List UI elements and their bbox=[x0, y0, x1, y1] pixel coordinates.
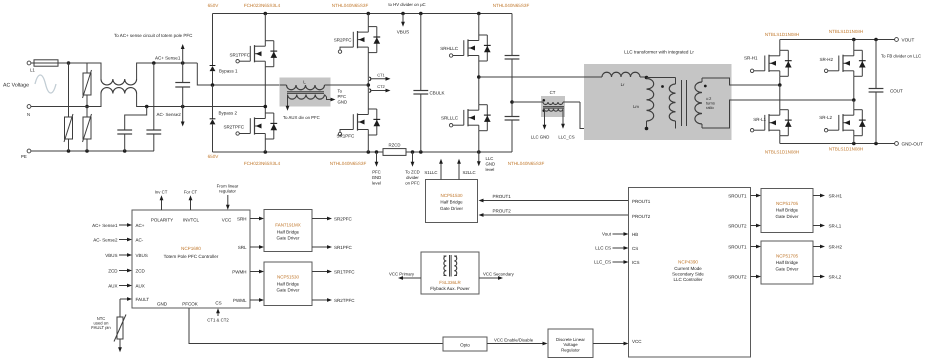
wire opto to regulator bbox=[487, 343, 545, 345]
svg-text:ratio: ratio bbox=[706, 105, 715, 110]
svg-text:VBUS: VBUS bbox=[397, 30, 410, 35]
U2 FAN7191MX Half Bridge Gate Driver bbox=[264, 210, 312, 252]
svg-text:PFC: PFC bbox=[338, 94, 347, 99]
svg-text:Gate Driver: Gate Driver bbox=[775, 214, 799, 219]
svg-text:S1LLC: S1LLC bbox=[424, 170, 437, 175]
wire regulator to LLC VCC bbox=[593, 343, 626, 345]
svg-text:Half Bridge: Half Bridge bbox=[776, 260, 799, 265]
svg-text:Flyback Aux. Power: Flyback Aux. Power bbox=[430, 286, 470, 291]
svg-text:650V: 650V bbox=[208, 154, 220, 159]
svg-text:VBUS: VBUS bbox=[136, 253, 148, 258]
svg-text:CT: CT bbox=[550, 90, 556, 95]
svg-text:FAN7191MX: FAN7191MX bbox=[275, 223, 301, 228]
wire N rail bbox=[31, 106, 100, 108]
svg-text:ICS: ICS bbox=[632, 260, 640, 265]
transistor SRLLLC bbox=[467, 109, 469, 126]
svg-text:VCC Primary: VCC Primary bbox=[389, 272, 415, 277]
terminal L1 bbox=[27, 61, 31, 65]
svg-text:PE: PE bbox=[21, 154, 27, 159]
svg-text:Gate Driver: Gate Driver bbox=[276, 288, 300, 293]
svg-text:Inv CT: Inv CT bbox=[155, 189, 168, 194]
svg-text:LLC transformer with integrate: LLC transformer with integrated Lr bbox=[624, 50, 694, 55]
svg-text:Gate Driver: Gate Driver bbox=[440, 206, 464, 211]
svg-text:GND: GND bbox=[372, 175, 382, 180]
svg-text:Gate Driver: Gate Driver bbox=[276, 236, 300, 241]
wires NCP4390 to SR drivers bbox=[751, 195, 759, 197]
svg-text:For CT: For CT bbox=[184, 189, 198, 194]
VCC from linear regulator bbox=[227, 195, 229, 208]
node AC-L at diode leg bbox=[211, 83, 215, 87]
capacitor CX1 (L-N) bbox=[182, 63, 184, 83]
svg-text:To ZCD: To ZCD bbox=[405, 170, 420, 175]
capacitor CBULK bbox=[420, 14, 422, 91]
svg-text:NTBLS1D1N08H: NTBLS1D1N08H bbox=[765, 32, 799, 37]
svg-text:Secondary Side: Secondary Side bbox=[672, 271, 704, 276]
node VBUS bbox=[402, 14, 404, 25]
wire secondary top to SR leg1 bbox=[702, 78, 780, 85]
svg-text:LLC_CS: LLC_CS bbox=[594, 260, 611, 265]
svg-text:SR2TPFC: SR2TPFC bbox=[334, 298, 355, 303]
diode Bypass 1 bbox=[212, 14, 214, 66]
svg-text:PFCOK: PFCOK bbox=[182, 301, 198, 306]
svg-text:Totem Pole PFC Controller: Totem Pole PFC Controller bbox=[164, 254, 219, 259]
svg-text:FCH023N65S3L4: FCH023N65S3L4 bbox=[244, 3, 281, 8]
svg-text:CS: CS bbox=[215, 300, 221, 305]
svg-text:NTBLS1D1N08H: NTBLS1D1N08H bbox=[829, 29, 863, 34]
svg-text:SR-L1: SR-L1 bbox=[829, 223, 842, 228]
wire GND-OUT rail bbox=[780, 143, 895, 145]
svg-text:Current Mode: Current Mode bbox=[674, 266, 702, 271]
svg-text:PFC: PFC bbox=[372, 170, 381, 175]
node Cr midpoint bbox=[510, 100, 514, 104]
svg-text:Gate Driver: Gate Driver bbox=[775, 266, 799, 271]
svg-text:NTHL040N65S3F: NTHL040N65S3F bbox=[332, 3, 369, 8]
svg-text:VCC: VCC bbox=[632, 339, 642, 344]
U6 NCP4390 Current Mode Secondary Side LLC Controller bbox=[629, 188, 751, 358]
U7 NCP51705 Half Bridge Gate Driver bbox=[761, 189, 813, 233]
svg-text:AC Voltage: AC Voltage bbox=[3, 83, 29, 89]
transistor SR-H1 bbox=[768, 55, 770, 72]
svg-text:on PFC: on PFC bbox=[405, 181, 420, 186]
svg-text:SR-L2: SR-L2 bbox=[829, 274, 842, 279]
svg-text:SR-H2: SR-H2 bbox=[829, 244, 843, 249]
transistor SR2TPFC bbox=[254, 117, 256, 134]
CT secondary leads LLC GND / LLC_CS bbox=[544, 110, 546, 128]
wire PFC bus- rail bbox=[213, 151, 384, 153]
wires PROUT1 PROUT2 bbox=[481, 200, 629, 202]
node LLC GND level bbox=[478, 152, 480, 164]
Opto block bbox=[443, 337, 487, 351]
svg-text:AC+ Sense1: AC+ Sense1 bbox=[155, 56, 181, 61]
svg-text:Lm: Lm bbox=[633, 104, 639, 109]
wire VOUT rail bbox=[780, 39, 895, 41]
svg-text:NTBLS1D1N08H: NTBLS1D1N08H bbox=[765, 150, 799, 155]
svg-text:Bypass 2: Bypass 2 bbox=[219, 111, 238, 116]
svg-text:regulator: regulator bbox=[219, 189, 237, 194]
node AC- Sense2 bbox=[182, 107, 184, 125]
U5 FSL336LR Flyback Aux Power bbox=[421, 252, 479, 294]
svg-text:Voltage: Voltage bbox=[563, 342, 578, 347]
svg-text:SRHLLC: SRHLLC bbox=[440, 46, 459, 51]
svg-text:AC-: AC- bbox=[136, 237, 144, 242]
U4 NCP51530 Half Bridge Gate Driver LLC bbox=[426, 180, 478, 223]
node LLC SW bbox=[477, 75, 481, 79]
node Lr/Lm junction bbox=[640, 76, 647, 78]
capacitor CY2 (L-PE) bbox=[153, 63, 155, 130]
svg-text:SRH: SRH bbox=[237, 216, 247, 221]
svg-text:CBULK: CBULK bbox=[430, 91, 445, 96]
U8 NCP51705 Half Bridge Gate Driver bbox=[761, 241, 813, 284]
svg-text:SR-L1: SR-L1 bbox=[753, 117, 766, 122]
wire PFC bus+ rail bbox=[213, 13, 513, 15]
svg-text:Lr: Lr bbox=[621, 82, 625, 87]
svg-text:GND: GND bbox=[338, 100, 348, 105]
svg-text:SR-L2: SR-L2 bbox=[819, 115, 832, 120]
varistor RV3 (N-PE) bbox=[86, 107, 88, 118]
svg-text:SRLLLC: SRLLLC bbox=[441, 116, 459, 121]
svg-text:NCP51705: NCP51705 bbox=[776, 253, 799, 258]
svg-text:NCP1680: NCP1680 bbox=[181, 246, 201, 251]
svg-text:FAULT: FAULT bbox=[136, 297, 150, 302]
inductor Lr bbox=[479, 76, 602, 78]
svg-text:SR1TPFC: SR1TPFC bbox=[334, 269, 355, 274]
svg-text:AC+ Sense1: AC+ Sense1 bbox=[92, 223, 118, 228]
driver outputs bbox=[312, 218, 330, 220]
svg-text:Half Bridge: Half Bridge bbox=[277, 282, 300, 287]
VCC Secondary lead bbox=[479, 277, 501, 279]
svg-text:ZCD: ZCD bbox=[108, 268, 118, 273]
svg-text:level: level bbox=[486, 167, 495, 172]
capacitor Cr bottom bbox=[505, 116, 520, 118]
VCC Primary lead bbox=[401, 277, 422, 279]
svg-text:SR-H1: SR-H1 bbox=[829, 193, 843, 198]
svg-text:VCC: VCC bbox=[222, 218, 232, 223]
svg-text:AUX: AUX bbox=[136, 283, 145, 288]
svg-text:To: To bbox=[338, 89, 343, 94]
svg-text:LLC GND: LLC GND bbox=[531, 135, 550, 140]
terminal PE bbox=[27, 149, 31, 153]
svg-text:CT2: CT2 bbox=[377, 84, 385, 89]
node SW fast leg bbox=[367, 83, 371, 87]
svg-text:to HV divider on µC: to HV divider on µC bbox=[388, 2, 425, 7]
terminal N bbox=[27, 105, 31, 109]
CS pin from CT1 CT2 bbox=[217, 310, 219, 316]
svg-text:AC- Sense2: AC- Sense2 bbox=[93, 237, 118, 242]
svg-text:CT1: CT1 bbox=[377, 72, 385, 77]
top pin For CT bbox=[190, 198, 192, 211]
svg-text:NCP4390: NCP4390 bbox=[678, 259, 698, 264]
svg-text:AC+: AC+ bbox=[136, 223, 145, 228]
transformer core bbox=[681, 80, 683, 126]
svg-text:Half Bridge: Half Bridge bbox=[440, 200, 463, 205]
svg-text:SR2TPFC: SR2TPFC bbox=[223, 125, 244, 130]
svg-text:AUX: AUX bbox=[108, 283, 117, 288]
svg-text:Bypass 1: Bypass 1 bbox=[219, 69, 238, 74]
svg-text:NCP51705: NCP51705 bbox=[776, 201, 799, 206]
svg-text:HB: HB bbox=[632, 232, 638, 237]
U3 NCP51530 Half Bridge Gate Driver bbox=[264, 262, 312, 306]
svg-text:SR-H2: SR-H2 bbox=[819, 57, 833, 62]
capacitor CY1 (N-PE) bbox=[125, 107, 147, 131]
aux winding of L bbox=[288, 95, 325, 100]
svg-text:Opto: Opto bbox=[460, 342, 470, 347]
svg-text:NTHL040N65S3F: NTHL040N65S3F bbox=[493, 3, 530, 8]
svg-text:N: N bbox=[27, 112, 30, 117]
CT2 tap bbox=[369, 89, 371, 92]
transformer secondary bbox=[701, 78, 703, 82]
svg-text:PWMH: PWMH bbox=[232, 269, 246, 274]
capacitor Cr top bbox=[511, 14, 513, 56]
svg-text:PROUT2: PROUT2 bbox=[632, 214, 651, 219]
terminal GND-OUT bbox=[895, 142, 899, 146]
svg-text:NCP51530: NCP51530 bbox=[277, 275, 300, 280]
node PFC GND level bbox=[376, 152, 378, 165]
svg-text:S2LLC: S2LLC bbox=[463, 170, 476, 175]
transistor SR2PFC bbox=[357, 31, 359, 48]
svg-text:Vout: Vout bbox=[602, 232, 612, 237]
node AC+ Sense1 bbox=[182, 46, 184, 63]
wire AC-L to bridge bbox=[197, 63, 212, 85]
wire L rail bbox=[58, 62, 101, 64]
LLC transformer block bbox=[584, 64, 732, 140]
transistor SR-H2 bbox=[842, 55, 844, 72]
svg-text:SR1PFC: SR1PFC bbox=[334, 245, 353, 250]
svg-text:RZCD: RZCD bbox=[389, 143, 401, 148]
inductor Lm bbox=[647, 79, 654, 122]
transistor SR1PFC bbox=[357, 113, 359, 130]
svg-text:SR1TPFC: SR1TPFC bbox=[229, 53, 250, 58]
svg-text:divider: divider bbox=[406, 175, 419, 180]
svg-text:SROUT1: SROUT1 bbox=[728, 193, 747, 198]
svg-text:NCP51530: NCP51530 bbox=[440, 193, 463, 198]
node leg2 mid bbox=[852, 98, 856, 102]
svg-text:Half Bridge: Half Bridge bbox=[277, 230, 300, 235]
Discrete Linear Voltage Regulator bbox=[548, 329, 593, 358]
node To ZCD divider on PFC bbox=[412, 152, 414, 165]
svg-text:SR2PFC: SR2PFC bbox=[334, 38, 353, 43]
wire secondary bottom to SR leg2 bbox=[702, 100, 854, 128]
NTC thermistor on FAULT pin bbox=[120, 298, 130, 300]
svg-text:CS: CS bbox=[632, 246, 638, 251]
common-mode choke L1 bbox=[58, 63, 101, 79]
svg-text:COUT: COUT bbox=[890, 89, 903, 94]
CT1 tap bbox=[369, 77, 371, 80]
svg-text:Half Bridge: Half Bridge bbox=[776, 208, 799, 213]
svg-text:VBUS: VBUS bbox=[105, 253, 117, 258]
svg-text:SROUT2: SROUT2 bbox=[728, 223, 747, 228]
svg-text:Regulator: Regulator bbox=[561, 347, 580, 352]
svg-text:LLC_CS: LLC_CS bbox=[558, 135, 574, 140]
svg-text:To AUX div on PFC: To AUX div on PFC bbox=[283, 115, 320, 120]
boost inductor L bbox=[280, 78, 331, 107]
svg-text:SROUT2: SROUT2 bbox=[728, 274, 747, 279]
node leg1 mid bbox=[778, 83, 782, 87]
top pin Inv CT bbox=[161, 198, 163, 211]
wire CT to primary return bbox=[580, 102, 676, 129]
transistor SR-L2 bbox=[842, 114, 844, 131]
svg-text:GND-OUT: GND-OUT bbox=[902, 142, 924, 147]
terminal VOUT bbox=[895, 38, 899, 42]
svg-text:CT1 & CT2: CT1 & CT2 bbox=[207, 317, 229, 322]
diode Bypass 2 bbox=[212, 85, 214, 119]
svg-text:FAULT pin: FAULT pin bbox=[91, 325, 111, 330]
transistor SRHLLC bbox=[467, 39, 469, 56]
svg-text:To FB divider on LLC: To FB divider on LLC bbox=[881, 54, 921, 59]
gate leads S1LLC / S2LLC bbox=[440, 161, 442, 180]
svg-text:NTHL040N65S3F: NTHL040N65S3F bbox=[330, 161, 367, 166]
svg-text:SR1PFC: SR1PFC bbox=[337, 134, 356, 139]
svg-text:PROUT1: PROUT1 bbox=[493, 194, 512, 199]
svg-text:SR2PFC: SR2PFC bbox=[334, 216, 353, 221]
svg-text:VOUT: VOUT bbox=[902, 38, 915, 43]
svg-text:GND: GND bbox=[486, 162, 496, 167]
transformer primary bbox=[675, 78, 677, 85]
svg-text:L1: L1 bbox=[30, 68, 35, 73]
svg-text:650V: 650V bbox=[208, 3, 220, 8]
svg-text:PROUT1: PROUT1 bbox=[632, 199, 651, 204]
transistor SR1TPFC bbox=[254, 45, 256, 62]
svg-text:NTBLS1D1N08H: NTBLS1D1N08H bbox=[829, 147, 863, 152]
svg-text:From linear: From linear bbox=[217, 183, 239, 188]
svg-text:Discrete Linear: Discrete Linear bbox=[556, 337, 585, 342]
svg-text:POLARITY: POLARITY bbox=[151, 218, 173, 223]
PFCOK wire to opto bbox=[189, 308, 443, 344]
wires controller to drivers bbox=[250, 218, 262, 220]
current transformer CT bbox=[541, 96, 565, 117]
svg-text:To AC+ sense circuit of totem: To AC+ sense circuit of totem pole PFC bbox=[114, 33, 193, 38]
svg-text:INVTCL: INVTCL bbox=[183, 218, 200, 223]
svg-text:SR-H1: SR-H1 bbox=[744, 56, 758, 61]
capacitor COUT bbox=[875, 40, 877, 89]
svg-text:LLC: LLC bbox=[486, 156, 494, 161]
svg-text:PWML: PWML bbox=[233, 298, 247, 303]
svg-text:GND: GND bbox=[157, 301, 168, 306]
svg-text:VCC Enable/Disable: VCC Enable/Disable bbox=[494, 337, 534, 342]
wire PE rail bbox=[31, 150, 154, 152]
svg-text:SRL: SRL bbox=[238, 245, 247, 250]
svg-text:PROUT2: PROUT2 bbox=[493, 209, 512, 214]
varistor RV2 (L-PE) bbox=[68, 63, 70, 117]
varistor RV1 (L-N) bbox=[86, 63, 88, 73]
resistor RZCD bbox=[383, 149, 406, 156]
svg-text:FSL336LR: FSL336LR bbox=[439, 280, 461, 285]
fuse F1 bbox=[31, 62, 34, 64]
svg-text:NTHL040N65S3F: NTHL040N65S3F bbox=[508, 161, 545, 166]
svg-text:SROUT1: SROUT1 bbox=[728, 244, 747, 249]
U1 NCP1680 Totem Pole PFC Controller bbox=[132, 210, 250, 308]
svg-text:AC- Sense2: AC- Sense2 bbox=[157, 112, 182, 117]
svg-text:VCC Secondary: VCC Secondary bbox=[483, 272, 515, 277]
svg-text:level: level bbox=[372, 181, 381, 186]
svg-text:ZCD: ZCD bbox=[136, 268, 146, 273]
svg-text:FCH023N65S3L4: FCH023N65S3L4 bbox=[244, 161, 281, 166]
transistor SR-L1 bbox=[768, 114, 770, 131]
SR driver outputs bbox=[813, 195, 823, 197]
svg-text:LLC CS: LLC CS bbox=[595, 246, 611, 251]
svg-text:LLC Controller: LLC Controller bbox=[673, 277, 703, 282]
